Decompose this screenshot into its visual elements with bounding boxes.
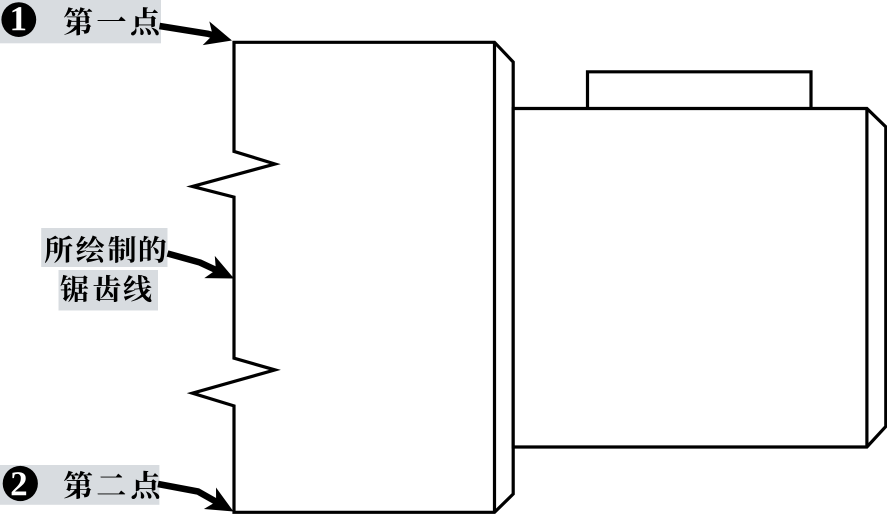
label 2 text line 1: 所绘制的 [45, 235, 166, 263]
label 3 background [0, 465, 159, 505]
small boss rectangle on top of right block [588, 72, 812, 109]
label 1 background [0, 0, 161, 43]
numbered bullet 2 [3, 466, 38, 501]
label 1 text: 第一点 [64, 7, 159, 35]
arrow 3 to second point (bottom-left corner) [158, 484, 218, 503]
arrow 1 to first point (top-left corner) [160, 26, 215, 36]
label 2 text line 2: 锯齿线 [60, 275, 151, 302]
label 2 background line 2 [59, 270, 159, 311]
large rectangle body with break lines (left block of part) [192, 42, 513, 512]
label 2 background line 1 [41, 228, 167, 267]
front-face right edge of left block [493, 42, 496, 512]
arrow 2 to the drawn zigzag line [168, 254, 218, 271]
front-face right edge of right block [865, 109, 868, 448]
label 3 text: 第二点 [64, 471, 159, 499]
right block of part [513, 109, 886, 448]
numbered bullet 1 [1, 2, 36, 37]
